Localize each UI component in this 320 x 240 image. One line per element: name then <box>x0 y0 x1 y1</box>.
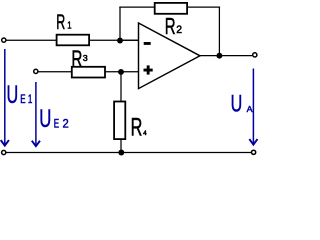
label R2 <box>165 14 182 40</box>
op-amp minus sign <box>144 42 151 45</box>
op-amp U1 <box>139 23 201 89</box>
svg-text:R: R <box>131 114 143 141</box>
node: output junction dot <box>216 53 222 59</box>
svg-text:E 1: E 1 <box>20 94 32 107</box>
terminal E2 <box>34 69 38 73</box>
svg-text:A: A <box>247 104 253 114</box>
wire: node B down to R4 <box>120 72 122 102</box>
label UE1 <box>7 80 33 109</box>
wire: R1 to node A <box>90 39 139 41</box>
label R4 <box>131 114 148 141</box>
wire: feedback top left segment to R2 <box>119 6 154 8</box>
label UE2 <box>39 105 69 133</box>
arrow UA <box>249 69 257 145</box>
terminal A (output) <box>253 53 257 57</box>
svg-text:2: 2 <box>63 118 69 130</box>
terminal: bottom left <box>2 150 6 154</box>
svg-text:E: E <box>54 118 60 131</box>
wire: feedback right riser down to output node <box>218 7 220 56</box>
wire: feedback top right segment <box>188 6 220 8</box>
terminal: bottom right <box>252 150 256 154</box>
resistor R1 <box>57 35 90 46</box>
wire: R3 to node B <box>105 71 139 73</box>
wire: bottom rail <box>6 152 251 154</box>
wire: output apex to node <box>199 55 252 57</box>
op-amp plus sign <box>144 65 153 74</box>
svg-text:R: R <box>165 14 176 40</box>
wire: E1 terminal to R1 <box>6 39 57 41</box>
node A (junction dot at inverting input net) <box>117 38 123 44</box>
resistor R4 <box>114 102 125 140</box>
wire: R4 down to bottom rail <box>120 139 122 153</box>
svg-text:2: 2 <box>176 24 182 36</box>
svg-text:1: 1 <box>67 19 71 30</box>
svg-text:R: R <box>71 46 82 72</box>
svg-text:R: R <box>56 10 65 34</box>
svg-text:U: U <box>39 105 51 133</box>
arrow UE2 <box>32 82 40 146</box>
svg-text:U: U <box>231 92 243 118</box>
svg-text:4: 4 <box>143 130 147 137</box>
wire: feedback riser up from node A <box>119 7 121 40</box>
node B (junction dot at non-inverting input net) <box>118 69 124 75</box>
label R3 <box>71 46 87 72</box>
node: bottom junction dot <box>118 150 124 156</box>
label R1 <box>56 10 71 34</box>
terminal E1 <box>2 38 6 42</box>
wire: E2 terminal to R3 <box>38 71 73 73</box>
label UA <box>231 92 253 118</box>
svg-text:3: 3 <box>83 53 88 63</box>
resistor R3 <box>72 67 105 78</box>
resistor R2 <box>155 3 187 14</box>
svg-text:U: U <box>7 80 19 109</box>
arrow UE1 <box>1 49 9 146</box>
wire: inverting input stub <box>120 39 139 41</box>
